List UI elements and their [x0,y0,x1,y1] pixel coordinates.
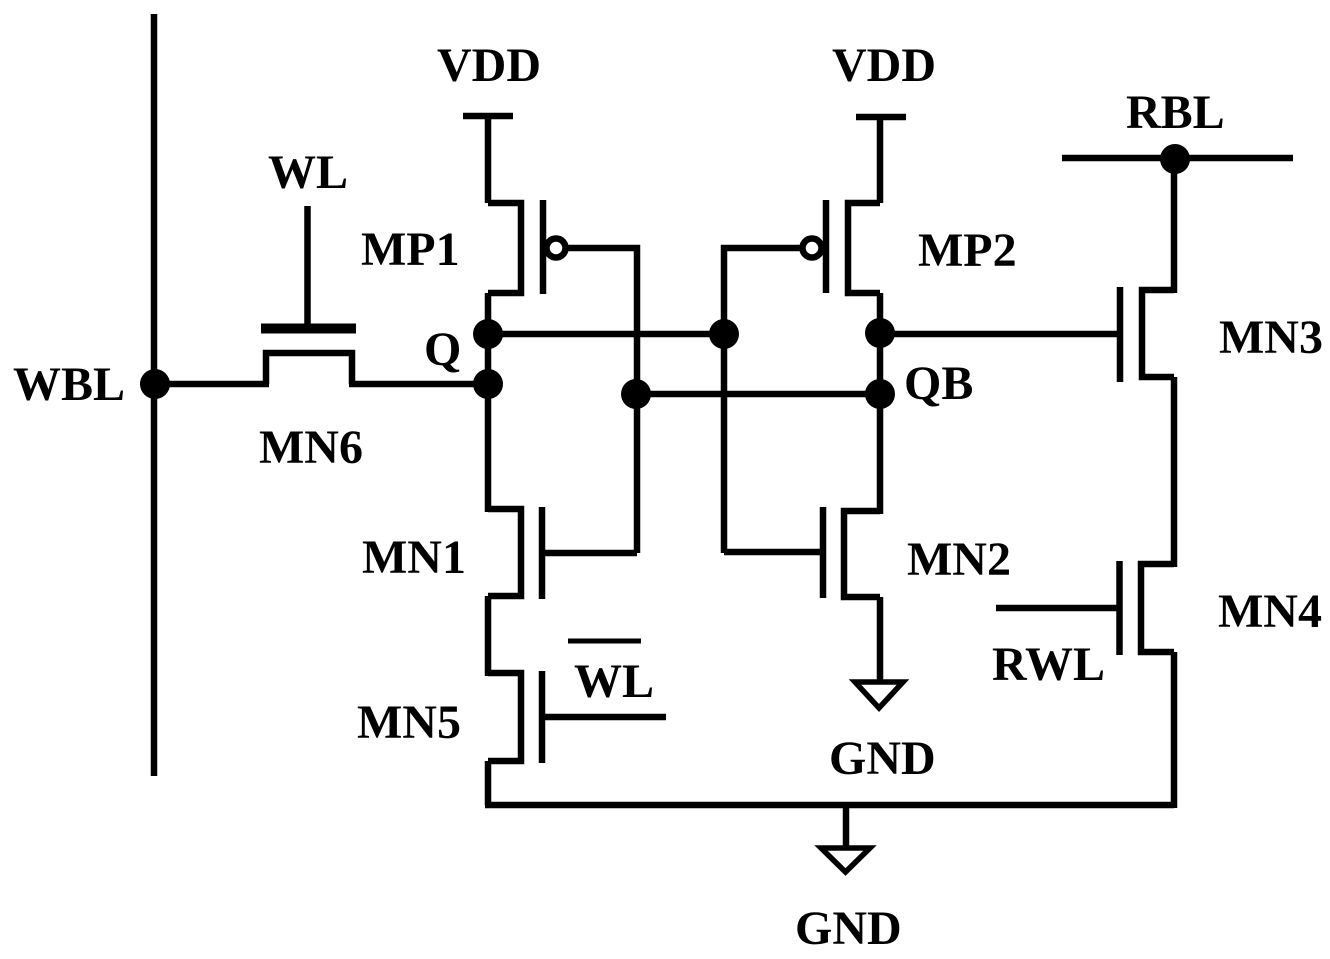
power VDD bar right [856,114,906,121]
wire QB cross-coupling row [636,391,880,398]
svg-text:MN1: MN1 [362,531,466,584]
svg-text:RBL: RBL [1126,86,1225,139]
svg-text:WL: WL [268,146,348,199]
wire MN4 source to ground rail [1171,652,1178,808]
svg-text:MN2: MN2 [907,533,1011,586]
wire MN1 gate lead [542,550,637,557]
transistor MN5 gate bar [539,671,546,763]
wire VDD to MP1 source [485,116,492,203]
wire node Q down to MN1 drain [485,334,492,512]
wire WBL vertical bit line [151,14,158,776]
wire WBL to MN6 source [154,381,269,388]
transistor MP1 gate bubble [547,239,566,258]
svg-text:GND: GND [829,732,936,785]
transistor MP2 gate bar [823,200,830,293]
svg-text:VDD: VDD [437,39,541,92]
node junction dot at MP2 gate line on Q wire [709,319,739,349]
wire RBL to MN3 drain [1171,158,1178,293]
wire MN6 drain to node Q [349,381,490,388]
transistor MN6 gate bar [261,324,356,334]
transistor MN4 gate bar [1116,561,1123,655]
node WBL junction dot [140,369,170,399]
transistor MN3 channel body [1142,290,1174,377]
transistor MN1 channel body [488,509,521,596]
transistor MN2 channel body [844,511,880,597]
node junction dot QB cross wire left [621,379,651,409]
svg-text:QB: QB [904,357,973,410]
wire WL lead to MN6 gate [304,206,311,330]
svg-text:VDD: VDD [832,39,936,92]
transistor MN4 channel body [1141,564,1174,652]
wire node QB to MN3 gate [880,331,1120,338]
wire node Q to MP2 gate line [488,331,724,338]
wire MP1 gate to QB cross-coupling [566,248,637,553]
power VDD bar left [463,113,513,120]
wire VDD to MP2 source [877,117,884,203]
transistor MP1 channel body [488,203,521,293]
wire MN1 source to MN5 drain [485,596,492,676]
transistor MP2 gate bubble [803,239,822,258]
transistor MN3 gate bar [1117,287,1124,382]
label WLbar overbar line [568,639,641,644]
wire MP2 drain to node QB [877,293,884,340]
svg-text:RWL: RWL [992,638,1105,691]
node RBL junction dot [1160,144,1190,174]
svg-text:MP2: MP2 [918,224,1017,277]
svg-text:Q: Q [424,323,461,376]
svg-text:WL: WL [574,655,654,708]
wire MN2 source to GND arrow [877,597,884,682]
node Q lower junction dot [473,369,503,399]
node QB upper junction dot [865,318,895,348]
transistor MP2 channel body [848,203,880,293]
transistor MP1 gate bar [540,200,547,294]
wire RWL lead to MN4 gate [996,605,1119,612]
wire node QB down to MN2 drain [877,334,884,514]
svg-text:MN4: MN4 [1218,585,1322,638]
svg-text:MN6: MN6 [259,421,363,474]
wire RBL read bit line [1062,155,1293,162]
ground GND arrow bottom [821,848,870,872]
ground GND arrow under MN2 [855,682,903,708]
svg-text:WBL: WBL [13,358,125,411]
svg-text:MP1: MP1 [361,223,460,276]
wire ground rail stub to GND arrow [843,805,850,849]
wire MN3 source to MN4 drain [1171,377,1178,567]
transistor MN1 gate bar [539,507,546,599]
node junction dot QB cross wire right [865,379,895,409]
wire MN5 gate lead WLbar stub [542,714,666,721]
wire bottom ground rail [485,802,1174,809]
wire MP2 gate to Q cross-coupling [724,248,803,553]
wire MP1 drain to node Q [485,293,492,340]
svg-text:MN3: MN3 [1219,311,1323,364]
node Q upper junction dot [473,319,503,349]
svg-text:GND: GND [795,902,902,955]
transistor MN6 channel body [266,353,352,384]
transistor MN2 gate bar [820,507,827,598]
wire MN2 gate lead [724,549,823,556]
svg-text:MN5: MN5 [357,696,461,749]
transistor MN5 channel body [488,673,521,761]
wire MN5 source to ground rail [485,761,492,805]
